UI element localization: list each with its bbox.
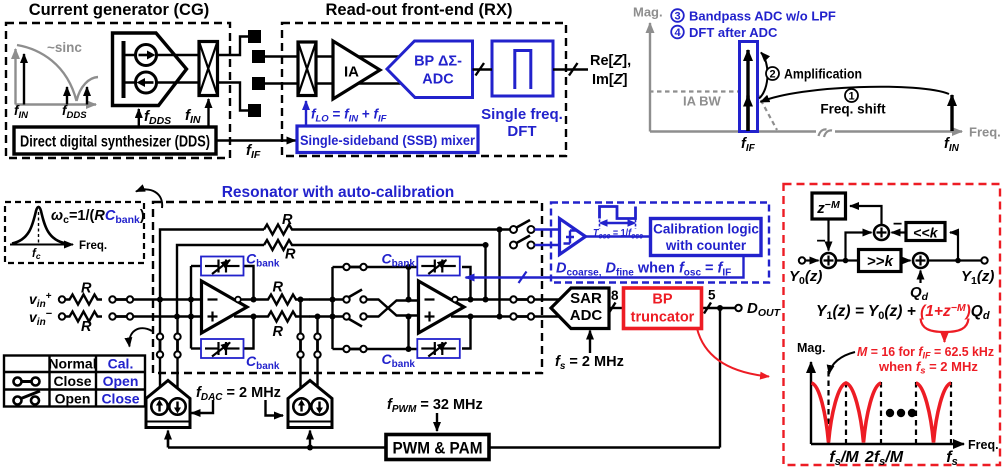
svg-text:Close: Close [53,373,91,389]
svg-text:fDDS: fDDS [144,108,171,127]
svg-text:Freq. shift: Freq. shift [820,102,886,117]
svg-text:~sinc: ~sinc [47,40,82,55]
svg-text:2: 2 [769,69,775,81]
svg-text:Freq.: Freq. [969,125,1001,140]
svg-text:Tosc = 1/fosc: Tosc = 1/fosc [593,227,643,241]
svg-text:−: − [817,233,826,250]
svg-text:>>k: >>k [867,253,894,270]
svg-text:fs/M: fs/M [829,449,859,468]
svg-text:Y1(z) = Y0(z) + (1+z−M)Qd: Y1(z) = Y0(z) + (1+z−M)Qd [816,302,990,322]
svg-text:fs = 2 MHz: fs = 2 MHz [555,354,624,372]
svg-text:<<k: <<k [913,225,938,241]
svg-text:fLO = fIN + fIF: fLO = fIN + fIF [311,107,387,125]
svg-text:fIN: fIN [185,107,201,126]
svg-text:Close: Close [101,391,139,407]
svg-text:fPWM = 32 MHz: fPWM = 32 MHz [387,397,483,415]
svg-text:R: R [273,324,284,340]
svg-text:Read-out front-end (RX): Read-out front-end (RX) [326,1,513,19]
svg-text:Single freq.: Single freq. [481,106,563,123]
svg-text:Amplification: Amplification [784,67,862,82]
svg-text:z−M: z−M [816,199,840,217]
svg-text:Single-sideband (SSB) mixer: Single-sideband (SSB) mixer [300,133,476,148]
svg-text:Open: Open [103,373,139,389]
svg-text:fIF: fIF [246,142,261,161]
svg-text:ADC: ADC [570,307,603,324]
svg-text:DFT after ADC: DFT after ADC [689,25,778,40]
svg-text:Re[Z],: Re[Z], [590,53,631,69]
svg-text:when fs = 2 MHz: when fs = 2 MHz [878,359,978,377]
svg-text:BP: BP [652,292,672,308]
svg-text:R: R [81,281,92,297]
svg-text:Calibration logic: Calibration logic [653,222,759,237]
svg-text:5: 5 [708,288,716,303]
svg-text:Current generator (CG): Current generator (CG) [29,1,210,19]
svg-text:R: R [81,319,92,335]
svg-text:R: R [282,212,293,228]
svg-text:BP ΔΣ-: BP ΔΣ- [414,54,462,70]
svg-text:IA: IA [344,64,359,81]
svg-text:Qd: Qd [910,284,929,303]
svg-text:R: R [285,247,296,263]
svg-text:PWM & PAM: PWM & PAM [393,440,483,458]
svg-text:Im[Z]: Im[Z] [592,72,628,88]
svg-text:Bandpass ADC w/o LPF: Bandpass ADC w/o LPF [689,9,836,24]
svg-text:Freq.: Freq. [79,240,107,252]
svg-text:fIN: fIN [944,136,960,154]
svg-text:−: − [893,216,902,233]
svg-text:8: 8 [611,288,619,303]
svg-text:fs: fs [946,449,957,468]
svg-text:4: 4 [674,27,681,39]
svg-text:Open: Open [55,391,91,407]
svg-text:Dcoarse, Dfine when fosc = fIF: Dcoarse, Dfine when fosc = fIF [556,261,731,279]
svg-text:Cbank: Cbank [382,351,416,370]
svg-text:ADC: ADC [422,72,454,88]
svg-text:vin−: vin− [29,308,52,328]
svg-text:Cal.: Cal. [108,356,134,372]
svg-text:truncator: truncator [631,310,695,326]
svg-text:IA BW: IA BW [683,94,722,109]
svg-text:Freq.: Freq. [968,438,999,452]
svg-text:Normal: Normal [48,356,96,372]
svg-text:with counter: with counter [665,238,747,253]
svg-text:Y1(z): Y1(z) [961,268,994,287]
svg-text:fIF: fIF [741,136,756,154]
svg-text:3: 3 [674,11,680,23]
svg-text:R: R [273,280,284,296]
svg-text:Direct digital synthesizer (DD: Direct digital synthesizer (DDS) [20,134,210,151]
svg-text:SAR: SAR [570,290,602,307]
svg-text:Mag.: Mag. [633,5,663,20]
svg-text:Y0(z): Y0(z) [789,268,822,287]
svg-text:fDAC = 2 MHz: fDAC = 2 MHz [196,385,281,403]
svg-text:fc: fc [32,248,41,261]
svg-text:Resonator with auto-calibratio: Resonator with auto-calibration [222,184,455,201]
svg-text:DOUT: DOUT [747,300,782,319]
svg-text:DFT: DFT [507,123,536,140]
svg-text:2fs/M: 2fs/M [864,449,904,468]
svg-text:ωc=1/(RCbank): ωc=1/(RCbank) [51,208,145,226]
svg-text:Cbank: Cbank [246,353,280,372]
svg-text:Mag.: Mag. [797,341,825,355]
